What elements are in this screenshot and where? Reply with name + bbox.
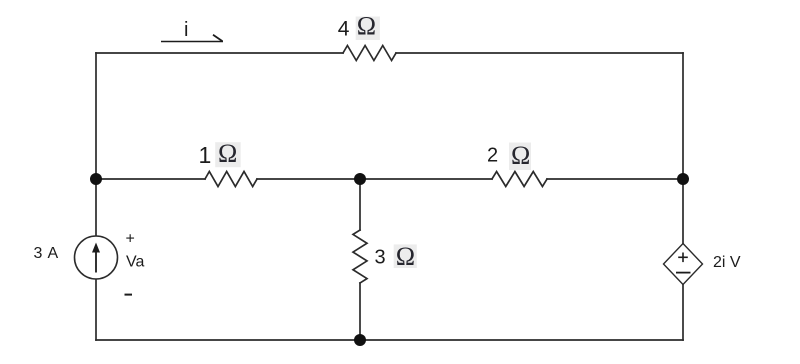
node C (right middle junction) <box>677 173 689 185</box>
resistor 4 ohm zigzag <box>343 46 396 61</box>
svg-text:Ω: Ω <box>218 139 237 168</box>
svg-text:Ω: Ω <box>396 242 415 271</box>
svg-text:2i V: 2i V <box>713 254 741 271</box>
wire middle right <box>547 178 683 180</box>
node D (bottom center junction) <box>354 334 366 346</box>
svg-text:3: 3 <box>375 247 386 269</box>
current source arrow head <box>92 243 100 253</box>
svg-text:+: + <box>126 231 135 248</box>
ohm shading 3 <box>394 244 417 268</box>
ohm shading 1 <box>215 142 241 167</box>
svg-text:A: A <box>48 245 59 262</box>
wire right lower <box>682 285 684 340</box>
svg-text:3: 3 <box>34 245 43 262</box>
wire top-left segment <box>96 52 343 54</box>
wire top-right segment <box>396 52 683 54</box>
wire middle left <box>96 178 205 180</box>
svg-text:Ω: Ω <box>357 12 376 41</box>
wire left lower <box>95 279 97 340</box>
wire left upper <box>95 53 97 236</box>
current source arrow shaft <box>95 250 97 273</box>
resistor 2 ohm zigzag <box>492 172 547 187</box>
current label i arrow <box>161 35 223 42</box>
node B (center middle junction) <box>354 173 366 185</box>
current source 3A circle <box>75 236 118 279</box>
svg-text:Va: Va <box>126 254 144 271</box>
label minus (Va) <box>125 294 133 296</box>
svg-text:4: 4 <box>338 18 350 41</box>
wire center vertical lower <box>359 283 361 340</box>
ohm shading 4 <box>356 17 380 41</box>
dependent voltage source diamond <box>664 244 703 285</box>
svg-text:Ω: Ω <box>511 141 530 170</box>
resistor 1 ohm zigzag <box>205 172 257 187</box>
wire middle center <box>257 178 492 180</box>
svg-text:i: i <box>184 19 188 41</box>
resistor 3 ohm zigzag vertical <box>353 230 367 283</box>
node A (left middle junction) <box>90 173 102 185</box>
wire center vertical upper <box>359 179 361 230</box>
dependent source minus sign <box>676 272 691 274</box>
svg-text:2: 2 <box>487 145 498 167</box>
ohm shading 2 <box>509 143 531 171</box>
svg-text:1: 1 <box>199 142 212 168</box>
wire right upper <box>682 53 684 244</box>
dependent source plus sign <box>678 253 688 263</box>
wire bottom <box>96 339 683 341</box>
